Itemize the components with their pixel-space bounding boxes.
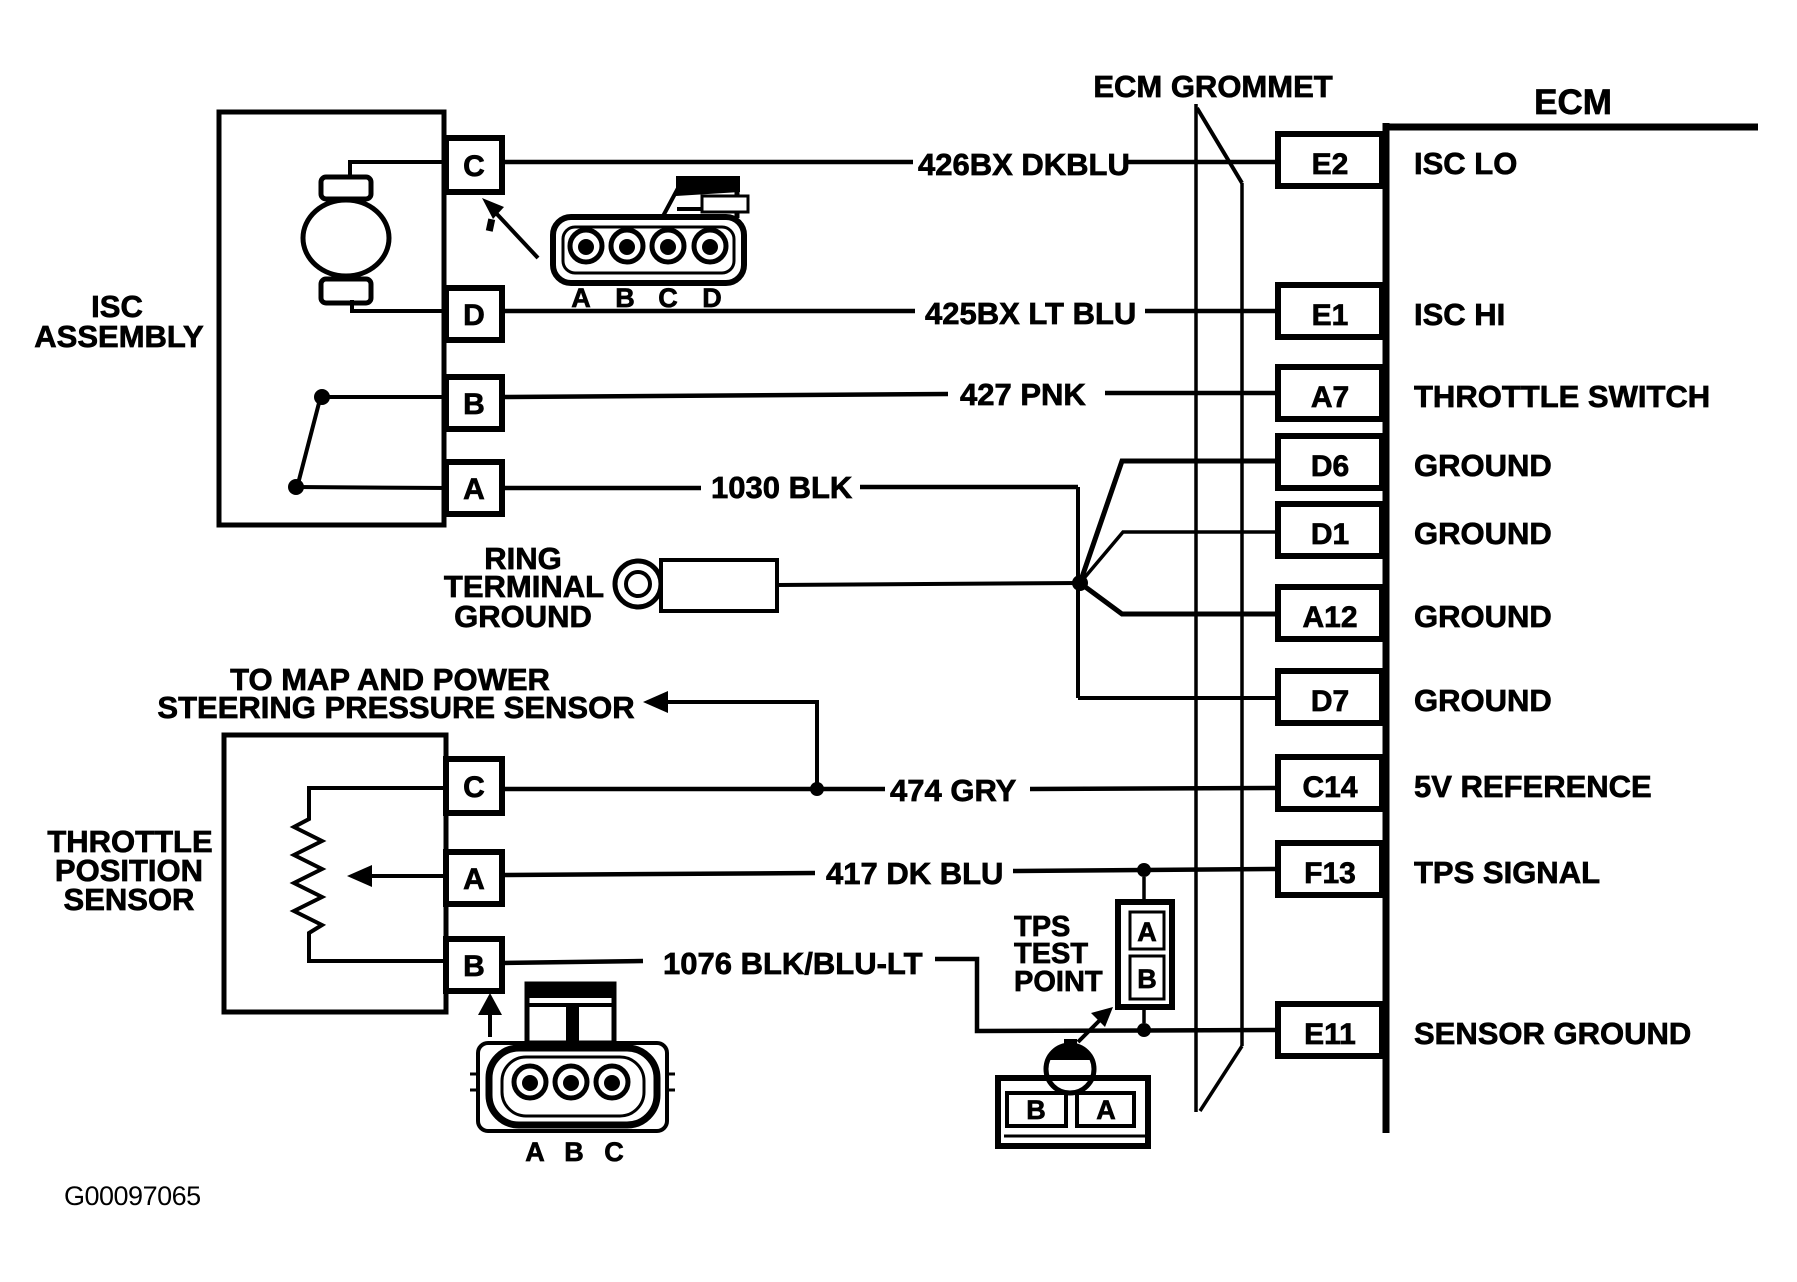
svg-text:GROUND: GROUND (454, 599, 592, 634)
svg-text:A: A (1137, 917, 1157, 947)
svg-text:E11: E11 (1304, 1018, 1356, 1051)
svg-text:D7: D7 (1311, 685, 1349, 718)
svg-text:ISC LO: ISC LO (1414, 146, 1517, 181)
svg-text:ISC HI: ISC HI (1414, 297, 1505, 332)
svg-text:A: A (463, 473, 485, 506)
svg-text:THROTTLE SWITCH: THROTTLE SWITCH (1414, 379, 1710, 414)
svg-text:427 PNK: 427 PNK (960, 377, 1086, 412)
svg-text:A: A (525, 1137, 545, 1167)
svg-text:D1: D1 (1311, 518, 1349, 551)
svg-text:F13: F13 (1304, 857, 1356, 890)
svg-text:5V REFERENCE: 5V REFERENCE (1414, 769, 1652, 804)
svg-text:A12: A12 (1302, 601, 1357, 634)
svg-text:ECM GROMMET: ECM GROMMET (1093, 69, 1332, 104)
svg-text:474 GRY: 474 GRY (890, 773, 1017, 808)
svg-text:GROUND: GROUND (1414, 448, 1552, 483)
svg-text:C: C (463, 150, 485, 183)
svg-text:A: A (571, 283, 591, 313)
svg-text:G00097065: G00097065 (64, 1181, 201, 1211)
svg-text:417 DK BLU: 417 DK BLU (826, 856, 1003, 891)
svg-text:C: C (658, 283, 678, 313)
svg-text:STEERING PRESSURE SENSOR: STEERING PRESSURE SENSOR (157, 690, 634, 725)
svg-text:B: B (1026, 1095, 1046, 1125)
svg-text:ASSEMBLY: ASSEMBLY (34, 319, 204, 354)
svg-text:D6: D6 (1311, 450, 1349, 483)
svg-text:E2: E2 (1312, 148, 1349, 181)
svg-text:C: C (463, 771, 485, 804)
svg-text:POINT: POINT (1014, 966, 1103, 998)
svg-text:1030 BLK: 1030 BLK (711, 470, 853, 505)
svg-text:1076 BLK/BLU-LT: 1076 BLK/BLU-LT (663, 946, 923, 981)
svg-text:B: B (463, 950, 485, 983)
svg-text:D: D (702, 283, 722, 313)
svg-text:A: A (1096, 1095, 1116, 1125)
svg-text:B: B (564, 1137, 584, 1167)
svg-text:SENSOR: SENSOR (64, 882, 195, 917)
svg-text:ECM: ECM (1534, 83, 1612, 122)
svg-text:A: A (463, 863, 485, 896)
svg-text:E1: E1 (1312, 299, 1349, 332)
svg-text:D: D (463, 299, 485, 332)
svg-text:TPS SIGNAL: TPS SIGNAL (1414, 855, 1600, 890)
svg-text:425BX LT BLU: 425BX LT BLU (925, 296, 1136, 331)
svg-text:426BX DKBLU: 426BX DKBLU (918, 147, 1130, 182)
svg-text:B: B (1137, 964, 1157, 994)
svg-text:GROUND: GROUND (1414, 516, 1552, 551)
svg-text:B: B (463, 388, 485, 421)
svg-text:GROUND: GROUND (1414, 683, 1552, 718)
svg-text:A7: A7 (1311, 381, 1349, 414)
svg-text:B: B (615, 283, 635, 313)
svg-text:GROUND: GROUND (1414, 599, 1552, 634)
svg-text:C14: C14 (1302, 771, 1357, 804)
svg-text:SENSOR GROUND: SENSOR GROUND (1414, 1016, 1691, 1051)
svg-text:C: C (604, 1137, 624, 1167)
